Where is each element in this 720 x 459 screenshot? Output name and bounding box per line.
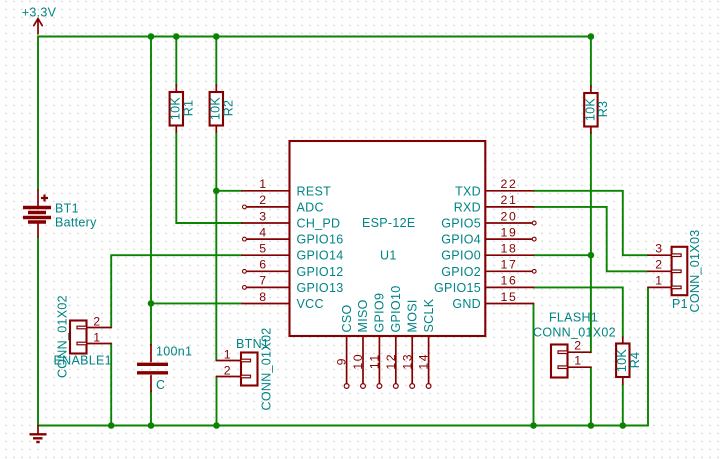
ground symbol — [30, 426, 47, 443]
svg-text:9: 9 — [335, 357, 349, 365]
U1 pin 7 GPIO13 — [243, 274, 344, 295]
U1 pin 17 GPIO2 — [441, 258, 536, 279]
svg-text:1: 1 — [574, 353, 582, 367]
svg-text:GPIO10: GPIO10 — [389, 286, 403, 333]
svg-text:U1: U1 — [380, 249, 397, 263]
svg-text:11: 11 — [368, 353, 382, 369]
svg-text:22: 22 — [501, 177, 518, 191]
connector P1 CONN_01X03 — [648, 230, 702, 313]
svg-text:BT1: BT1 — [55, 202, 79, 216]
junction top rail at R3 — [588, 33, 595, 40]
svg-text:17: 17 — [501, 258, 518, 272]
wire R3 bottom to FLASH1 pin2 — [590, 133, 592, 353]
junction rail at ENABLE1 — [108, 422, 115, 429]
wire R2 top — [215, 37, 217, 86]
battery BT1 — [23, 190, 97, 237]
junction rail at BTN1 — [213, 422, 220, 429]
svg-text:21: 21 — [501, 193, 518, 207]
svg-text:GPIO5: GPIO5 — [441, 217, 481, 231]
U1 pin 1 REST — [242, 177, 331, 198]
wire VCC from +3.3V vertical — [150, 37, 152, 304]
svg-text:P1: P1 — [672, 297, 688, 311]
svg-text:2: 2 — [224, 364, 232, 378]
svg-text:18: 18 — [501, 242, 518, 256]
svg-text:ADC: ADC — [297, 200, 324, 214]
svg-text:10: 10 — [351, 353, 365, 370]
resistor R3 — [583, 86, 610, 133]
svg-text:3: 3 — [655, 241, 663, 255]
capacitor C 100n1 — [137, 345, 192, 393]
U1 pin 19 GPIO4 — [441, 225, 536, 246]
wire R2 bottom through REST to BTN1 pin1 — [215, 132, 217, 361]
svg-text:R4: R4 — [628, 352, 642, 369]
wire BTN1 pin2 to ground rail — [216, 377, 218, 426]
svg-text:GPIO15: GPIO15 — [434, 281, 481, 295]
junction REST node — [213, 188, 220, 195]
U1 pin 9 CSO — [335, 305, 354, 389]
svg-text:16: 16 — [501, 274, 518, 288]
U1 pin 8 VCC — [242, 290, 324, 311]
op-amp U1 ESP-12E body — [290, 141, 486, 336]
wire GPIO15 to R4 — [534, 287, 623, 337]
svg-text:R3: R3 — [596, 101, 610, 118]
svg-text:VCC: VCC — [297, 297, 324, 311]
svg-text:100n1: 100n1 — [156, 345, 192, 359]
wire ENABLE1 pin1 to ground rail — [110, 344, 112, 426]
U1 pin 21 RXD — [454, 193, 534, 214]
junction rail at FLASH1 — [588, 422, 595, 429]
svg-text:SCLK: SCLK — [422, 298, 436, 332]
svg-text:CH_PD: CH_PD — [297, 217, 341, 231]
svg-text:2: 2 — [655, 258, 663, 272]
resistor R1 — [169, 85, 196, 132]
svg-text:GPIO4: GPIO4 — [441, 233, 481, 247]
svg-text:ESP-12E: ESP-12E — [362, 216, 416, 230]
junction rail at R4 — [620, 422, 627, 429]
wire cap top — [150, 303, 152, 345]
svg-text:13: 13 — [400, 353, 414, 370]
svg-text:CONN_01X02: CONN_01X02 — [533, 326, 616, 340]
junction top rail at R1 — [173, 33, 180, 40]
svg-text:1: 1 — [655, 274, 663, 288]
power symbol +3.3V — [22, 6, 57, 35]
wire VCC horizontal — [151, 302, 242, 304]
svg-text:7: 7 — [259, 274, 267, 288]
svg-text:GPIO14: GPIO14 — [297, 249, 344, 263]
wire battery negative to ground rail — [38, 237, 648, 426]
U1 pin 4 GPIO16 — [243, 225, 344, 246]
svg-text:GND: GND — [452, 297, 481, 311]
U1 pin 13 MOSI — [400, 299, 419, 388]
junction rail at C — [148, 422, 155, 429]
svg-text:CONN_01X02: CONN_01X02 — [260, 328, 274, 411]
svg-text:4: 4 — [259, 225, 267, 239]
wire GND pin15 down to rail — [533, 304, 535, 426]
connector BTN1 CONN_01X02 — [217, 328, 274, 411]
wire R1 top — [175, 37, 177, 86]
svg-text:FLASH1: FLASH1 — [549, 311, 598, 325]
U1 pin 14 SCLK — [417, 298, 436, 388]
U1 pin 20 GPIO5 — [441, 209, 536, 230]
svg-text:8: 8 — [259, 290, 267, 304]
svg-text:GPIO9: GPIO9 — [373, 293, 387, 333]
svg-text:19: 19 — [501, 225, 518, 239]
svg-text:MISO: MISO — [356, 299, 370, 332]
junction rail at GND pin — [530, 422, 537, 429]
svg-text:14: 14 — [417, 353, 431, 370]
wire FLASH1 pin1 to ground rail — [590, 367, 592, 425]
junction top rail at VCC/C — [148, 33, 155, 40]
svg-text:CONN_01X03: CONN_01X03 — [688, 230, 702, 313]
svg-text:R1: R1 — [182, 100, 196, 117]
svg-text:R2: R2 — [222, 100, 236, 117]
U1 pin 18 GPIO0 — [441, 242, 533, 263]
svg-text:CSO: CSO — [340, 305, 354, 333]
wire RXD to P1 pin2 — [534, 207, 649, 271]
connector ENABLE1 CONN_01X02 — [54, 295, 112, 378]
U1 pin 10 MISO — [351, 299, 370, 388]
svg-text:2: 2 — [574, 338, 582, 352]
wire cap bottom to ground rail — [150, 391, 152, 426]
resistor R2 — [209, 85, 236, 132]
svg-text:MOSI: MOSI — [405, 299, 419, 332]
svg-text:Battery: Battery — [55, 216, 97, 230]
wire GPIO0 to R3 — [534, 254, 591, 256]
svg-text:RXD: RXD — [454, 200, 481, 214]
svg-text:5: 5 — [259, 242, 267, 256]
wire R3 top — [590, 37, 592, 87]
svg-text:3: 3 — [259, 209, 267, 223]
U1 pin 22 TXD — [455, 177, 533, 198]
U1 pin 2 ADC — [243, 193, 324, 214]
svg-text:C: C — [156, 378, 165, 392]
U1 pin 5 GPIO14 — [242, 242, 343, 263]
svg-text:15: 15 — [501, 290, 518, 304]
U1 pin 16 GPIO15 — [434, 274, 533, 295]
wire R1 bottom to CH_PD — [176, 132, 242, 224]
wire TXD to P1 pin3 — [534, 191, 649, 255]
svg-text:GPIO0: GPIO0 — [441, 249, 481, 263]
U1 pin 6 GPIO12 — [243, 258, 344, 279]
wire R4 bottom to ground rail — [622, 384, 624, 426]
svg-text:GPIO12: GPIO12 — [297, 265, 344, 279]
U1 pin 15 GND — [452, 290, 533, 311]
svg-text:2: 2 — [93, 315, 101, 329]
U1 pin 3 CH_PD — [242, 209, 340, 230]
svg-text:GPIO2: GPIO2 — [441, 265, 481, 279]
connector FLASH1 CONN_01X02 — [533, 311, 616, 378]
svg-text:6: 6 — [259, 258, 267, 272]
svg-text:1: 1 — [259, 177, 267, 191]
svg-text:12: 12 — [384, 353, 398, 370]
svg-text:20: 20 — [501, 209, 518, 223]
U1 pin 12 GPIO10 — [384, 286, 403, 389]
svg-text:1: 1 — [224, 348, 232, 362]
svg-text:REST: REST — [297, 184, 332, 198]
junction VCC node — [148, 300, 155, 307]
wire +3.3V top rail — [38, 37, 591, 191]
U1 pin 11 GPIO9 — [368, 293, 387, 389]
svg-text:ENABLE1: ENABLE1 — [54, 354, 112, 368]
wire REST stub — [216, 190, 242, 192]
wire P1 pin1 down to rail — [647, 287, 649, 425]
svg-text:+3.3V: +3.3V — [22, 6, 57, 20]
resistor R4 — [615, 337, 642, 384]
svg-text:TXD: TXD — [455, 184, 481, 198]
svg-text:GPIO16: GPIO16 — [297, 233, 344, 247]
svg-text:GPIO13: GPIO13 — [297, 281, 344, 295]
svg-text:2: 2 — [259, 193, 267, 207]
junction top rail at R2 — [213, 33, 220, 40]
junction GPIO0 node — [588, 252, 595, 259]
wire GPIO14 to ENABLE1 pin2 — [111, 255, 242, 327]
svg-text:1: 1 — [93, 331, 101, 345]
